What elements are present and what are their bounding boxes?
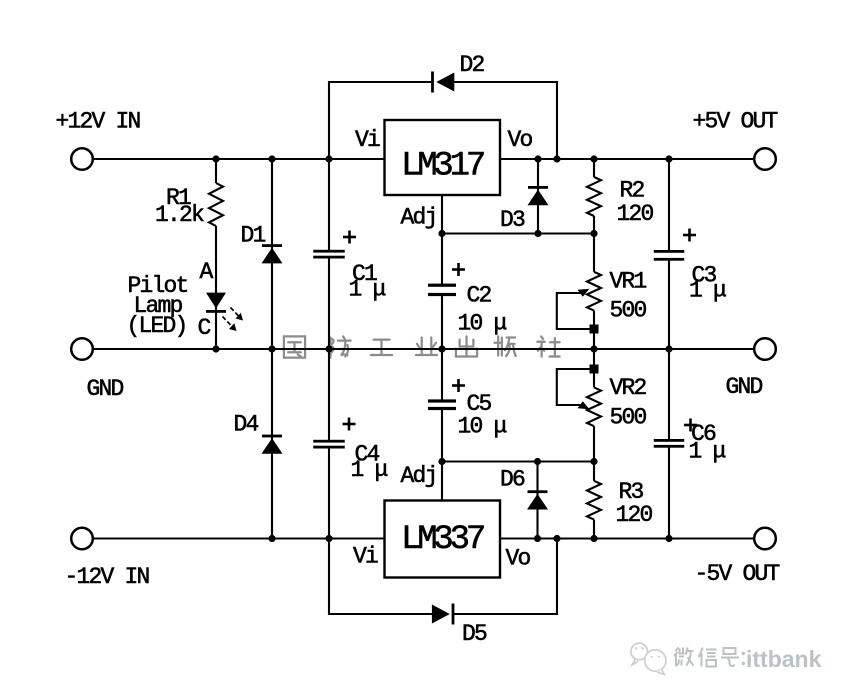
node A2 <box>268 155 275 162</box>
VR1 wiper <box>557 289 599 334</box>
svg-text:120: 120 <box>616 502 653 528</box>
plus sign C6 <box>684 419 697 432</box>
node C2n <box>534 230 541 237</box>
diode D5 <box>432 604 455 625</box>
op-amp U1 LM317 regulator box <box>385 120 501 195</box>
wire bottom loop horizontal right <box>454 613 558 615</box>
LED pilot lamp <box>206 290 243 349</box>
svg-text:D3: D3 <box>500 207 525 233</box>
capacitor C4 1u <box>313 349 345 538</box>
wire +12V rail <box>93 158 385 160</box>
node F3 <box>534 535 541 542</box>
capacitor C1 1u <box>313 160 345 349</box>
VR2 wiper <box>557 365 599 410</box>
diode D6 <box>527 462 548 539</box>
capacitor C3 1u <box>654 159 685 349</box>
terminal +5V output <box>754 148 776 170</box>
capacitor C2 10u <box>428 234 456 350</box>
watermark char fang <box>330 336 350 357</box>
wire top loop horizontal left <box>329 81 432 83</box>
svg-text:D4: D4 <box>234 412 259 438</box>
node A3 <box>325 155 332 162</box>
svg-text:LM337: LM337 <box>401 521 484 559</box>
svg-text:1 μ: 1 μ <box>689 278 726 304</box>
wechat char xin <box>699 648 717 667</box>
wire -12V rail <box>93 537 385 539</box>
resistor R2 120 <box>587 159 601 234</box>
node B3 <box>590 155 597 162</box>
watermark char ye <box>416 337 437 354</box>
svg-text:GND: GND <box>87 376 124 402</box>
diode D2 <box>431 72 454 93</box>
svg-text:D2: D2 <box>460 52 485 78</box>
plus sign C2 <box>452 263 465 276</box>
node G3 <box>325 345 332 352</box>
wire bottom loop horizontal left <box>329 613 432 615</box>
node C3n <box>590 230 597 237</box>
svg-text:+5V OUT: +5V OUT <box>693 109 778 135</box>
watermark char chu <box>456 336 477 356</box>
svg-text:Vo: Vo <box>506 546 531 572</box>
capacitor C6 1u <box>654 349 685 539</box>
svg-text:1 μ: 1 μ <box>351 457 388 483</box>
watermark char she <box>537 336 559 356</box>
svg-text:(LED): (LED) <box>127 313 187 339</box>
wechat char wei <box>674 648 694 667</box>
wire -5V rail <box>500 537 755 539</box>
svg-text:C: C <box>198 315 211 341</box>
node E3 <box>590 458 597 465</box>
wire bottom loop right vertical <box>556 538 558 616</box>
watermark char ban <box>494 336 515 356</box>
svg-text:A: A <box>200 259 214 285</box>
node G1 <box>212 345 219 352</box>
resistor VR1 500 body <box>587 234 601 350</box>
svg-text:VR2: VR2 <box>610 375 647 401</box>
terminal -5V output <box>754 528 776 550</box>
diode D4 <box>262 349 283 539</box>
diode D3 <box>528 159 549 234</box>
node F2 <box>325 535 332 542</box>
watermark char gong <box>371 340 392 355</box>
svg-text:500: 500 <box>610 405 647 431</box>
terminal GND left <box>71 338 93 360</box>
svg-text:LM317: LM317 <box>401 148 484 186</box>
wechat colon <box>742 652 745 665</box>
op-amp U2 LM337 regulator box <box>385 501 501 578</box>
plus sign C5 <box>452 379 465 392</box>
terminal +12V input <box>71 148 93 170</box>
svg-text:R2: R2 <box>620 178 645 204</box>
node G5 <box>590 345 597 352</box>
node F1 <box>268 535 275 542</box>
wire top loop horizontal right <box>454 81 558 83</box>
svg-text:D6: D6 <box>500 467 525 493</box>
svg-text:C2: C2 <box>467 283 492 309</box>
svg-text:VR1: VR1 <box>610 269 647 295</box>
svg-text:D1: D1 <box>241 223 266 249</box>
svg-text:-12V IN: -12V IN <box>65 564 149 590</box>
svg-text:1 μ: 1 μ <box>349 277 386 303</box>
svg-text:1 μ: 1 μ <box>689 439 726 465</box>
wire top loop left vertical <box>328 81 330 160</box>
svg-text:120: 120 <box>617 201 654 227</box>
wechat char hao <box>721 648 739 666</box>
wire LM317 Adj lead <box>441 195 443 234</box>
terminal GND right <box>754 338 776 360</box>
svg-text:Adj: Adj <box>401 463 437 489</box>
wire Adj rail top <box>442 232 594 234</box>
node G6 <box>665 345 672 352</box>
svg-text:+12V IN: +12V IN <box>56 109 140 135</box>
node F4 <box>553 535 560 542</box>
wechat icon bubbles <box>631 643 666 674</box>
node B2 <box>553 155 560 162</box>
node B4 <box>665 155 672 162</box>
plus sign C3 <box>683 229 696 242</box>
wire Adj rail bottom <box>442 460 594 462</box>
terminal -12V input <box>71 528 93 550</box>
resistor VR2 500 body <box>587 349 601 462</box>
node C1n <box>438 230 445 237</box>
svg-text:500: 500 <box>610 298 647 324</box>
wire GND rail <box>93 348 754 350</box>
resistor R1 1.2k <box>209 159 223 292</box>
wire +5V rail <box>500 158 755 160</box>
wire bottom loop left vertical <box>328 538 330 616</box>
node B1 <box>534 155 541 162</box>
node E1 <box>438 458 445 465</box>
node G2 <box>268 345 275 352</box>
svg-text:10 μ: 10 μ <box>458 414 507 440</box>
diode D1 <box>262 159 283 349</box>
svg-text:D5: D5 <box>462 621 487 647</box>
node F5 <box>590 535 597 542</box>
node A1 <box>212 155 219 162</box>
svg-text:Vi: Vi <box>355 127 380 153</box>
svg-text:Adj: Adj <box>401 205 437 231</box>
svg-text:-5V OUT: -5V OUT <box>695 561 780 587</box>
svg-text:1.2k: 1.2k <box>155 202 204 228</box>
plus sign C4 <box>343 418 356 431</box>
node G4 <box>438 345 445 352</box>
svg-text:GND: GND <box>726 374 763 400</box>
resistor R3 120 <box>587 462 601 539</box>
wire LM337 Adj lead <box>441 462 443 501</box>
node E2 <box>534 458 541 465</box>
watermark char guo <box>284 336 305 357</box>
svg-text:Vi: Vi <box>353 544 378 570</box>
node F6 <box>665 535 672 542</box>
capacitor C5 10u <box>428 349 456 462</box>
svg-text:Vo: Vo <box>508 127 533 153</box>
svg-text:ittbank: ittbank <box>746 646 822 672</box>
wire top loop right vertical <box>556 81 558 160</box>
plus sign C1 <box>343 231 356 244</box>
svg-text:10 μ: 10 μ <box>458 311 507 337</box>
